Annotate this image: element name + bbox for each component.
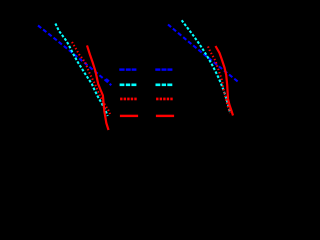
right panel cyan dashed curve: [182, 20, 230, 113]
legend row 1 left: blue dashed sample: [119, 68, 136, 70]
legend row 4 left: red solid sample: [120, 115, 138, 117]
left panel red dotted curve: [72, 42, 110, 114]
right panel red curve: [216, 46, 234, 116]
legend row 4 right: red solid sample: [156, 115, 174, 117]
left panel blue dashed line: [38, 26, 111, 86]
left panel red curve: [87, 45, 109, 130]
left panel cyan dashed curve: [55, 24, 107, 117]
legend row 2 right: cyan dashed sample: [156, 84, 173, 87]
right panel blue dashed line: [168, 25, 239, 83]
legend row 1 right: blue dashed sample: [155, 68, 172, 70]
right panel red dotted curve: [208, 47, 230, 114]
legend row 3 right: red dotted sample: [156, 98, 173, 101]
legend row 2 left: cyan dashed sample: [120, 84, 137, 87]
legend row 3 left: red dotted sample: [120, 98, 137, 101]
